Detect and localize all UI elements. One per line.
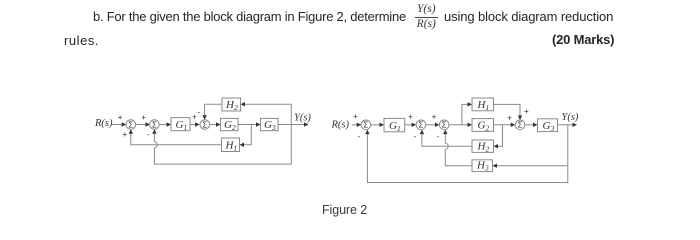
svg-text:R(s): R(s) (331, 119, 350, 130)
question text line 1 (93, 9, 406, 24)
svg-text:G1: G1 (389, 120, 401, 133)
svg-text:G3: G3 (264, 119, 276, 132)
svg-text:G2: G2 (224, 119, 236, 132)
block H3 (right) (472, 160, 493, 172)
wire S1 to S2 (136, 122, 150, 126)
wire G2 to G3 with tap node (238, 122, 261, 126)
wire tap down to H1 (240, 125, 252, 148)
wire outer feedback loop to S2 bottom with hop (152, 125, 291, 165)
block G2 (right) (472, 119, 494, 132)
svg-text:-: - (437, 132, 440, 141)
svg-text:Σ: Σ (152, 120, 157, 129)
svg-text:H2: H2 (477, 141, 490, 154)
svg-text:G1: G1 (176, 119, 188, 132)
svg-text:R(s): R(s) (94, 118, 113, 129)
svg-text:+: + (432, 112, 437, 121)
fraction Y(s)/R(s) (415, 3, 438, 30)
svg-text:Y(s): Y(s) (294, 112, 311, 123)
svg-text:Σ: Σ (518, 121, 523, 130)
svg-text:+: + (353, 112, 358, 121)
svg-text:+: + (192, 113, 197, 122)
wire SD to G3 (525, 123, 538, 127)
svg-text:G2: G2 (478, 120, 490, 133)
wire SA to G1 (371, 123, 384, 127)
summing junction SB (416, 120, 426, 130)
wire G3 to output Y(s) (278, 122, 309, 126)
svg-text:+: + (507, 114, 512, 123)
block G3 (left) (261, 118, 279, 130)
wire S2 to G1 (159, 122, 171, 126)
wire H2 output to S3 top (202, 104, 222, 120)
marks label (552, 32, 614, 47)
svg-text:+: + (141, 113, 146, 122)
block H1 (right) (472, 98, 494, 111)
svg-text:H1: H1 (225, 140, 238, 153)
svg-text:-: - (358, 132, 361, 141)
block H2 (right) (472, 140, 494, 152)
wire S3 to G2 (209, 122, 220, 126)
wire branch up to H1 (462, 102, 472, 125)
block H2 (left) (222, 98, 241, 111)
svg-text:Y(s): Y(s) (562, 112, 579, 123)
wire output tap down to H3 input (493, 125, 568, 168)
block G1 (right) (384, 118, 405, 131)
svg-text:Σ: Σ (442, 121, 447, 130)
summing junction S2 (150, 120, 160, 130)
wire SC to G2 with branch node (449, 123, 472, 127)
svg-text:+: + (408, 112, 413, 121)
wire G1 to SB (405, 123, 416, 127)
wire H3 output to SC bottom with hop (443, 130, 472, 166)
wire R(s) to summer S1 (112, 122, 126, 126)
wire SB to SC (426, 123, 440, 127)
summing junction SC (439, 120, 449, 130)
svg-text:+: + (118, 113, 123, 122)
svg-text:Σ: Σ (202, 120, 207, 129)
block G3 (right) (538, 119, 558, 132)
wire R(s) to summer SA (352, 123, 361, 127)
question text line 2 (64, 33, 99, 48)
summing junction S1 (126, 120, 136, 130)
svg-text:-: - (414, 132, 417, 141)
wire H1 output to SD top (494, 104, 523, 120)
svg-text:-: - (198, 108, 201, 117)
wire H2 output to SB bottom with hop (420, 130, 472, 147)
summing junction SA (361, 120, 371, 130)
figure caption (322, 203, 367, 217)
svg-text:-: - (147, 130, 150, 139)
wire output tap up to H2 (241, 102, 292, 125)
wire G1 to S3 (190, 122, 200, 126)
block H1 (left) (222, 138, 240, 152)
svg-text:H2: H2 (225, 99, 238, 112)
wire tap down to H2 (494, 125, 503, 149)
svg-text:Σ: Σ (363, 121, 368, 130)
svg-text:Σ: Σ (128, 120, 133, 129)
wire G2 to SD with tap node (494, 123, 516, 127)
wire G3 to output Y(s) (558, 123, 578, 127)
svg-text:H3: H3 (476, 160, 489, 173)
svg-text:G3: G3 (543, 120, 555, 133)
svg-text:+: + (123, 130, 128, 139)
svg-text:Σ: Σ (419, 121, 424, 130)
summing junction SD (515, 120, 525, 130)
summing junction S3 (200, 120, 210, 130)
svg-text:H1: H1 (477, 99, 490, 112)
block G2 (left) (221, 118, 239, 130)
svg-text:+: + (524, 107, 529, 116)
wire outer feedback loop to SA bottom (365, 130, 568, 183)
question text line 1 cont (444, 9, 613, 24)
block G1 (left) (171, 118, 190, 131)
wire H1 output to S1 bottom (129, 129, 222, 145)
